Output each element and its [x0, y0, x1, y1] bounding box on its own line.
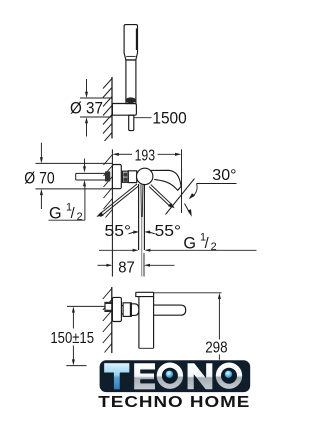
dimension 150±15 line and arrows	[72, 306, 75, 312]
escutcheon (side)	[112, 297, 121, 321]
dimension Ø37 extension lines	[80, 97, 112, 99]
dimension 298 line and arrow	[218, 293, 221, 299]
wall (middle section, continues as 87 extension line)	[111, 149, 113, 276]
lever (vertical, front)	[138, 184, 140, 250]
G1/2 outlet arrows (right)	[99, 249, 257, 252]
letter O eye 1	[157, 363, 183, 389]
swung lever left 55°	[96, 184, 138, 217]
dimension 298 extension line	[154, 292, 222, 294]
dimension 87	[98, 253, 175, 277]
connection nut (front)	[122, 171, 128, 182]
svg-text:/: /	[205, 236, 210, 252]
G1/2 pipe thread arrows (left)	[84, 159, 86, 168]
shower hose	[129, 115, 134, 130]
union nut on pipe	[105, 171, 110, 181]
letter N	[187, 363, 212, 390]
svg-text:Ø 37: Ø 37	[70, 100, 103, 118]
leader line 1500	[134, 117, 152, 119]
spout (side)	[154, 305, 186, 315]
head shading line	[136, 29, 138, 51]
wall hatching (middle)	[104, 155, 113, 218]
mixer body (front)	[128, 171, 137, 183]
swing arc arrows at lever bottom	[129, 231, 155, 234]
extension line (spout tip)	[181, 149, 183, 213]
30° label underline and leader arrow	[189, 184, 237, 200]
body (side, with hanging lever)	[138, 297, 140, 349]
hand shower head	[124, 25, 137, 60]
svg-text:55°: 55°	[105, 223, 132, 240]
svg-text:298: 298	[205, 340, 227, 357]
letter T (blue)	[104, 363, 130, 390]
dimension Ø37 arrows	[86, 79, 88, 93]
logo plate	[100, 360, 251, 392]
dimension Ø70 arrows	[40, 143, 42, 158]
svg-text:Ø 70: Ø 70	[24, 169, 54, 187]
spout (front)	[150, 170, 181, 190]
svg-text:2: 2	[211, 241, 217, 253]
30° swivel arrow lower	[185, 204, 192, 217]
wall hatching (top)	[103, 79, 112, 142]
body cap (side)	[136, 292, 154, 296]
holder grip blob	[125, 97, 136, 103]
swung lever right 55°	[149, 185, 175, 209]
head seam	[126, 55, 136, 57]
svg-text:193: 193	[135, 147, 156, 164]
dimension 193 line and arrows	[112, 153, 119, 156]
cartridge sphere	[137, 168, 153, 184]
30° swivel line	[166, 179, 195, 215]
svg-text:/: /	[71, 206, 76, 222]
dimension Ø70 extension lines	[36, 162, 113, 164]
letter O eye 2	[216, 363, 242, 389]
inlet supply pipe (front)	[76, 172, 105, 174]
wall bracket	[112, 104, 136, 116]
check valve bulge (side)	[131, 304, 139, 316]
lever centerline	[141, 217, 143, 277]
svg-text:TECHNO HOME: TECHNO HOME	[98, 394, 250, 411]
letter E	[134, 363, 155, 390]
S-union nut (side)	[105, 302, 112, 311]
svg-text:55°: 55°	[155, 223, 182, 240]
wall (top section)	[111, 77, 113, 139]
svg-text:1500: 1500	[152, 110, 186, 128]
escutcheon (front)	[112, 165, 121, 189]
svg-text:2: 2	[77, 211, 83, 223]
svg-text:87: 87	[118, 259, 135, 276]
hand shower handle	[126, 60, 136, 104]
wall hatching (bottom)	[103, 289, 112, 353]
wall (bottom section)	[111, 287, 113, 353]
svg-text:150±15: 150±15	[50, 330, 94, 347]
svg-text:30°: 30°	[212, 167, 236, 184]
connection nut (side)	[123, 303, 131, 317]
svg-text:G: G	[183, 235, 196, 253]
dimension 150±15 extension lines	[67, 305, 105, 307]
svg-text:G: G	[49, 204, 62, 222]
